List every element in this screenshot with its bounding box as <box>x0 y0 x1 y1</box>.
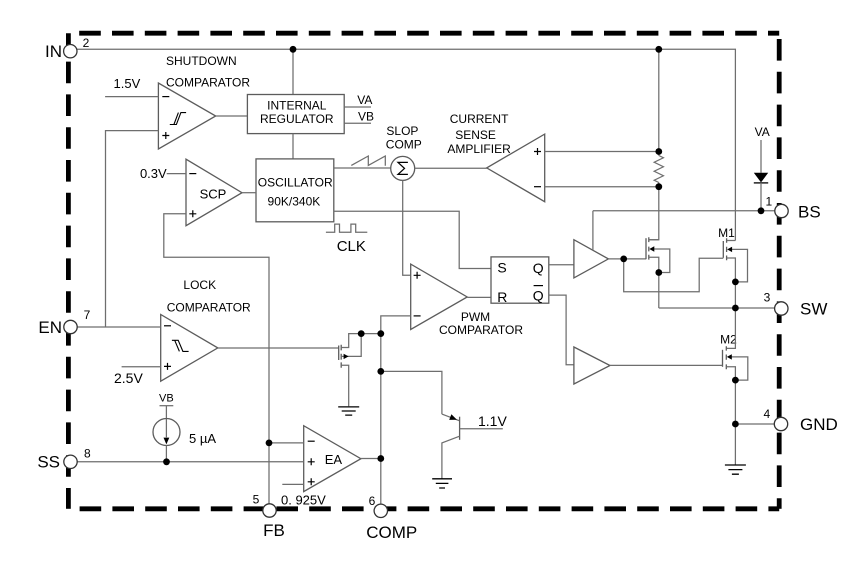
current source I1 lead and arrow <box>165 406 167 438</box>
svg-text:VB: VB <box>159 393 174 405</box>
junction Q4 body/drain <box>358 330 365 337</box>
svg-text:COMPARATOR: COMPARATOR <box>166 76 250 90</box>
U7 minus sign <box>534 186 541 188</box>
wire U7 plus input to sense resistor top <box>545 151 659 153</box>
VB rail bar <box>160 405 174 407</box>
wire FB net: U2 plus input, down, across, down to FB pin <box>164 214 269 504</box>
ground symbol (power stage) <box>725 465 746 474</box>
svg-text:VA: VA <box>357 93 372 107</box>
svg-text:0.3V: 0.3V <box>140 166 167 181</box>
svg-text:CLK: CLK <box>337 238 366 255</box>
svg-text:3: 3 <box>764 291 771 305</box>
wire EN pin to U6 minus <box>78 326 161 328</box>
U3 minus sign <box>414 315 421 317</box>
svg-text:4: 4 <box>763 407 770 421</box>
svg-text:VA: VA <box>755 125 770 139</box>
BJT Q5 emitter diagonal to ground <box>442 436 460 479</box>
svg-text:M2: M2 <box>720 333 737 347</box>
svg-text:Q: Q <box>533 260 544 276</box>
transistor M2 body wire <box>731 357 748 380</box>
transistor Q4 source stub to ground <box>341 365 349 406</box>
oscillator block <box>256 159 334 222</box>
CLK glyph <box>326 224 367 232</box>
U7 plus sign <box>534 148 541 155</box>
U6 plus sign <box>164 363 171 370</box>
wire U6 output to Q4 gate <box>218 347 339 349</box>
wire SW rail <box>659 307 775 309</box>
junction IN/regulator <box>290 46 297 53</box>
transistor M1 body wire <box>731 249 748 282</box>
current source I1 circle <box>153 419 180 446</box>
internal regulator block <box>247 95 344 134</box>
svg-text:FB: FB <box>263 521 285 540</box>
junction Q3 source/body <box>655 269 662 276</box>
transistor Q4 body wire <box>341 334 361 357</box>
wire U1 output to regulator <box>216 115 248 117</box>
wire 2.5V reference stub <box>122 366 161 368</box>
junction M1 source/body <box>732 279 739 286</box>
IC boundary dashed border top <box>68 31 779 36</box>
wire latch Q to high-side driver <box>549 264 574 266</box>
svg-text:1.1V: 1.1V <box>478 413 507 429</box>
svg-text:6: 6 <box>369 494 376 508</box>
wire sense chain upper segment <box>658 49 660 155</box>
transistor Q3 body arrow <box>649 246 654 251</box>
svg-text:CURRENT: CURRENT <box>450 112 509 126</box>
pin 2 IN circle <box>64 45 77 58</box>
wire VA to diode <box>760 140 762 173</box>
junction driver output <box>620 256 627 263</box>
wire sense chain lower segment to Q3 drain <box>649 183 659 240</box>
junction M2 source/body <box>732 377 739 384</box>
transistor M1 drain stub <box>727 240 736 242</box>
U2 plus sign <box>189 210 196 217</box>
svg-text:AMPLIFIER: AMPLIFIER <box>447 142 511 156</box>
transistor Q4 body arrow <box>344 354 349 359</box>
transistor M2 source stub down to ground <box>726 367 735 465</box>
transistor Q3 source stub down to SW rail <box>649 257 659 308</box>
wire internal regulator supply drop <box>292 49 294 94</box>
wire VA output stub <box>344 106 371 108</box>
resistor sense <box>654 156 663 183</box>
pin 5 FB circle <box>263 504 276 517</box>
SCP comparator U2 <box>186 159 242 226</box>
svg-text:8: 8 <box>84 447 91 461</box>
junction FB/EA minus <box>266 440 273 447</box>
wire oscillator sawtooth output to summer <box>334 167 391 169</box>
wire summer output down to PWM plus input <box>403 180 411 275</box>
SR latch block <box>491 257 549 303</box>
BJT Q5 base bar <box>459 417 461 440</box>
EA minus sign <box>308 440 315 442</box>
low-side driver U5 <box>574 347 610 384</box>
current source I1 arrowhead <box>164 438 170 445</box>
transistor M1 body arrow <box>727 247 732 252</box>
wire M2 drain from SW <box>726 308 735 348</box>
IC boundary dashed border left <box>66 33 71 509</box>
junction sense top <box>655 148 662 155</box>
svg-text:SW: SW <box>800 300 827 319</box>
junction SS/current source <box>163 458 170 465</box>
transistor Q3 body wire <box>652 249 670 273</box>
svg-text:EN: EN <box>38 318 62 337</box>
wire 0.3V to U2 minus <box>167 173 186 175</box>
junction SW node <box>732 305 739 312</box>
pin 3 SW circle <box>775 302 788 315</box>
transistor Q4 gate bar <box>338 346 340 361</box>
EA plus sign (middle) <box>308 458 315 465</box>
transistor M2 gate bar <box>722 350 724 367</box>
svg-text:0. 925V: 0. 925V <box>281 493 326 508</box>
BJT Q5 arrow <box>449 414 457 420</box>
svg-text:COMPARATOR: COMPARATOR <box>439 323 523 337</box>
U1 hysteresis glyph <box>170 113 186 125</box>
wire COMP net: PWM minus, down to COMP pin <box>381 316 411 504</box>
diode D1 <box>754 173 768 183</box>
svg-text:2.5V: 2.5V <box>114 370 143 386</box>
transistor M1 gate bar <box>722 241 724 258</box>
svg-text:VB: VB <box>358 110 374 124</box>
svg-text:5: 5 <box>253 493 260 507</box>
svg-text:SCP: SCP <box>200 186 227 201</box>
transistor Q4 drain wire to COMP net <box>341 334 381 348</box>
svg-text:COMP: COMP <box>386 137 422 151</box>
wire SS rail to EA plus <box>78 461 304 463</box>
wire BJT Q5 collector from COMP net <box>381 371 442 414</box>
svg-text:GND: GND <box>800 415 838 434</box>
wire latch Q-bar to low-side driver <box>549 295 574 365</box>
junction sense bottom <box>655 183 662 190</box>
svg-text:S: S <box>497 260 506 276</box>
wire U2 output stub <box>242 192 256 194</box>
wire driver branch to M1 gate <box>624 258 724 292</box>
svg-text:REGULATOR: REGULATOR <box>260 112 334 126</box>
wire diode to BS rail <box>760 183 762 211</box>
svg-text:COMPARATOR: COMPARATOR <box>167 301 251 315</box>
error amplifier EA <box>304 426 361 492</box>
wire summer to current sense amplifier output <box>415 167 487 169</box>
junction BJT collector/COMP <box>377 368 384 375</box>
wire U7 minus input to sense resistor bottom <box>545 186 659 188</box>
svg-text:SLOP: SLOP <box>386 124 418 138</box>
wire IN rail from pin 2 to M1 drain <box>77 49 736 240</box>
current sense amplifier U7 <box>487 134 545 202</box>
shutdown comparator U1 <box>158 83 215 149</box>
lock comparator U6 <box>161 315 218 382</box>
svg-text:1.5V: 1.5V <box>114 76 141 91</box>
transistor M2 channel segments <box>725 346 727 369</box>
svg-text:INTERNAL: INTERNAL <box>267 98 327 112</box>
IC boundary dashed border right <box>777 33 782 509</box>
svg-text:LOCK: LOCK <box>183 278 216 292</box>
pin 4 GND circle <box>774 417 787 430</box>
svg-text:OSCILLATOR: OSCILLATOR <box>258 175 333 189</box>
junction EA output/COMP <box>377 455 384 462</box>
svg-text:SHUTDOWN: SHUTDOWN <box>166 54 237 68</box>
wire U1 plus input from EN net <box>106 131 159 327</box>
U3 plus sign <box>414 272 421 279</box>
U6 hysteresis glyph <box>172 340 189 351</box>
wire EA output to COMP net <box>361 458 381 460</box>
pin 6 COMP circle <box>374 504 387 517</box>
ground symbol (Q5) <box>432 479 452 488</box>
U2 minus sign <box>189 173 196 175</box>
wire oscillator CLK output to latch S <box>334 211 491 268</box>
current source I1 lower lead <box>165 446 167 462</box>
svg-text:SS: SS <box>37 453 60 472</box>
pin 7 EN circle <box>64 320 77 333</box>
ground symbol (Q4) <box>338 407 359 415</box>
Q-bar overline <box>534 285 543 287</box>
svg-text:5 µA: 5 µA <box>189 431 216 446</box>
svg-text:SENSE: SENSE <box>455 128 496 142</box>
wire 0.925V reference stub <box>282 483 303 485</box>
transistor M2 body arrow <box>727 354 732 359</box>
transistor Q3 gate bar <box>645 238 647 259</box>
junction GND node <box>732 421 739 428</box>
svg-text:BS: BS <box>798 203 821 222</box>
transistor M1 channel segments <box>726 238 728 260</box>
wire EA minus input from FB net <box>269 442 304 444</box>
wire U5 output to M2 gate <box>610 364 723 366</box>
junction IN/sense chain <box>655 46 662 53</box>
wire driver output to Q3 gate <box>608 258 646 260</box>
junction Q4 drain/COMP <box>377 330 384 337</box>
svg-text:EA: EA <box>325 452 343 467</box>
high-side driver U4 <box>574 240 609 278</box>
EA plus sign (bottom) <box>308 478 315 485</box>
U1 minus sign <box>162 96 169 98</box>
wire GND rail <box>735 423 774 425</box>
transistor Q3 channel segments <box>648 237 650 259</box>
svg-text:7: 7 <box>84 308 91 322</box>
transistor Q4 channel segments <box>340 345 342 368</box>
pin 1 BS circle <box>775 204 788 217</box>
wire regulator to oscillator <box>292 134 294 159</box>
wire 1.5V reference stub <box>105 96 158 98</box>
pin 8 SS circle <box>64 455 77 468</box>
wire BS rail drop to driver <box>592 211 594 250</box>
wire BS rail <box>593 210 775 212</box>
svg-text:COMP: COMP <box>366 523 417 542</box>
wire U3 output to latch R <box>467 296 491 298</box>
svg-text:Q: Q <box>533 287 544 303</box>
junction diode/BS <box>758 207 765 214</box>
U1 plus sign <box>162 132 169 139</box>
summer SLOP COMP circle <box>391 156 415 180</box>
sawtooth glyph <box>351 156 385 166</box>
PWM comparator U3 <box>411 264 468 329</box>
U6 minus sign <box>164 325 171 327</box>
transistor M1 source stub down to SW <box>727 258 736 308</box>
wire VB output stub <box>344 122 371 124</box>
diode D1 cathode bar <box>754 182 768 184</box>
svg-text:90K/340K: 90K/340K <box>268 194 321 208</box>
sigma glyph <box>398 162 408 174</box>
transistor Q3 drain stub <box>649 239 659 241</box>
svg-text:R: R <box>497 289 507 305</box>
wire 1.1V base stub <box>460 428 503 430</box>
svg-text:IN: IN <box>45 42 62 61</box>
svg-text:2: 2 <box>83 36 90 50</box>
svg-text:1: 1 <box>765 194 772 208</box>
svg-text:M1: M1 <box>718 226 735 240</box>
BJT Q5 collector diagonal <box>442 414 460 421</box>
IC boundary dashed border bottom <box>68 506 779 511</box>
